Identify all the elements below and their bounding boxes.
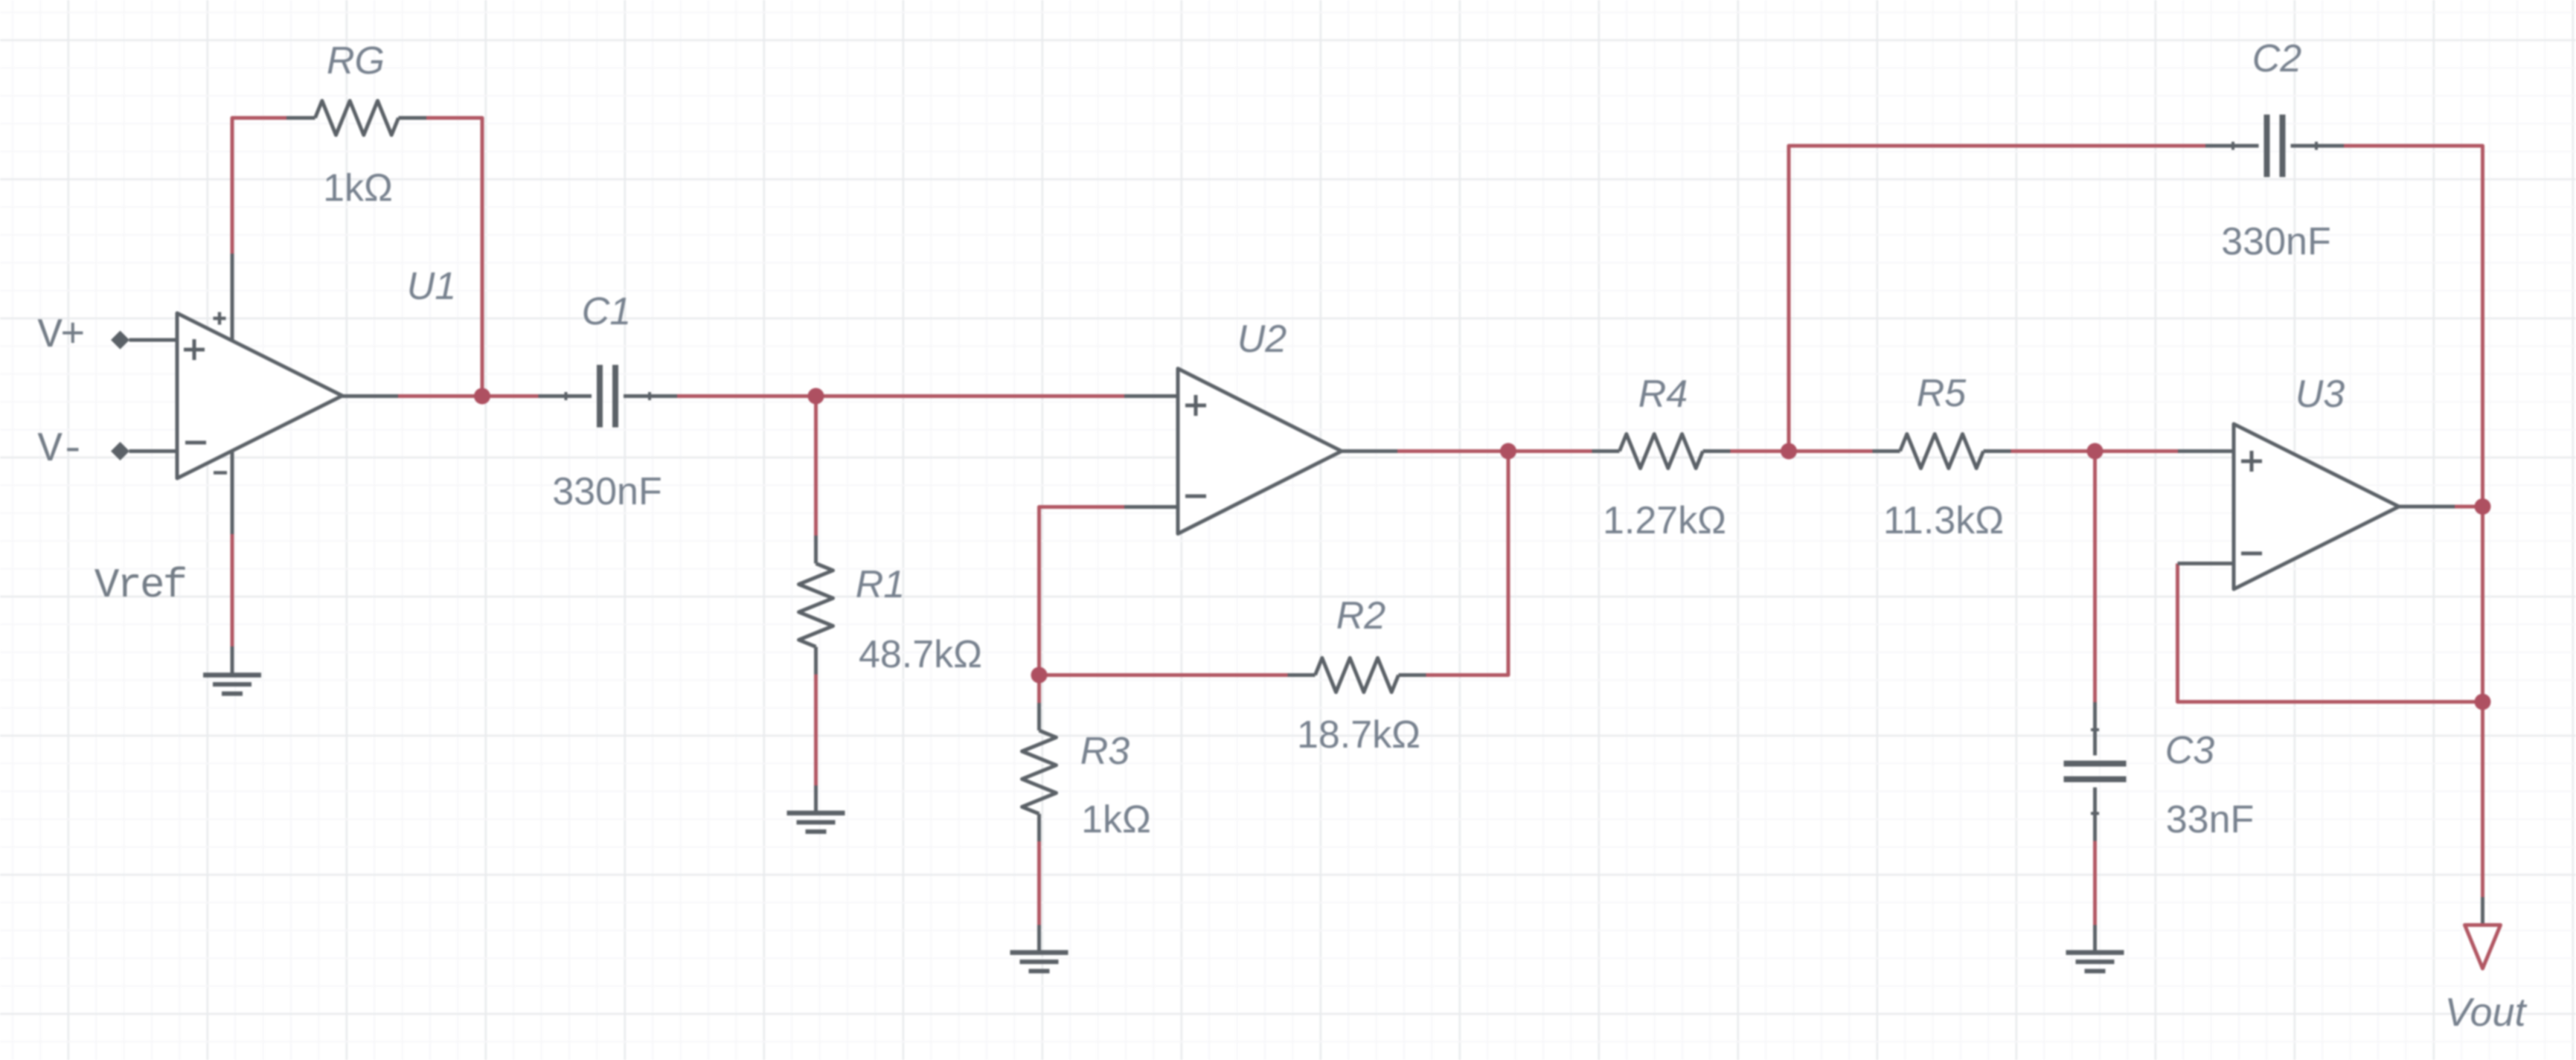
resistor RG	[286, 101, 426, 135]
wire: node C down to R3	[1037, 675, 1041, 704]
wire: C1 to node B	[677, 394, 816, 398]
wire: R1 to ground lead	[814, 675, 818, 786]
wire: U3 - input feedback to Vout node	[2178, 564, 2483, 702]
svg-text:1.27kΩ: 1.27kΩ	[1603, 499, 1726, 542]
wire: C2 to Vout trunk top	[2344, 146, 2483, 507]
node A: U1 output junction	[474, 388, 490, 405]
svg-text:330nF: 330nF	[552, 470, 661, 513]
wire: R4 to node E	[1731, 449, 1790, 453]
ground (C3)	[2066, 925, 2124, 971]
svg-text:Vref: Vref	[94, 562, 186, 609]
resistor R5	[1873, 434, 2011, 469]
op-amp U3	[2178, 424, 2455, 589]
svg-text:RG: RG	[327, 39, 385, 83]
op-amp U1	[129, 254, 399, 534]
wire: feedback node down to Vout flag	[2481, 702, 2484, 898]
wire: node E to R5	[1789, 449, 1873, 453]
svg-text:C1: C1	[582, 290, 631, 333]
terminal V-	[111, 442, 129, 460]
svg-text:U2: U2	[1237, 318, 1287, 361]
svg-text:1kΩ: 1kΩ	[1081, 798, 1151, 841]
wire: U3 output to trunk	[2455, 505, 2483, 509]
resistor R1	[799, 536, 833, 675]
op-amp U2	[1124, 369, 1397, 534]
wire: C3 to ground lead	[2093, 841, 2097, 925]
svg-text:Vout: Vout	[2444, 990, 2527, 1035]
wire: trunk output node to feedback node	[2481, 507, 2484, 702]
node H: feedback/Vout junction	[2475, 694, 2491, 710]
node D: U2 output junction	[1500, 443, 1516, 460]
svg-text:U3: U3	[2295, 373, 2345, 416]
wire: R5 to node F	[2011, 449, 2095, 453]
node G: U3 output junction	[2475, 498, 2491, 515]
svg-text:R4: R4	[1638, 373, 1688, 416]
node E: R4/C2/R5 junction	[1781, 443, 1797, 460]
wire: node E up and right to C2	[1789, 146, 2205, 452]
svg-text:V+: V+	[37, 312, 83, 359]
wire: U2 - input to node C	[1039, 507, 1125, 675]
svg-text:1kΩ: 1kΩ	[323, 167, 393, 210]
svg-text:11.3kΩ: 11.3kΩ	[1883, 499, 2004, 542]
svg-text:V-: V-	[37, 425, 83, 473]
node C: R2/R3 junction	[1031, 667, 1048, 684]
svg-text:U1: U1	[407, 265, 456, 308]
svg-text:330nF: 330nF	[2221, 220, 2330, 263]
wire: R3 to ground lead	[1037, 841, 1041, 925]
wire: node B to U2 + input	[816, 394, 1125, 398]
svg-text:R3: R3	[1080, 730, 1130, 773]
wire: node B down to R1	[814, 396, 818, 536]
wire: node D to R4	[1508, 449, 1592, 453]
resistor R3	[1022, 703, 1057, 841]
resistor R2	[1288, 658, 1426, 693]
capacitor C1	[539, 365, 678, 428]
wire: U1 bottom pin to Vref ground	[231, 534, 234, 646]
wire: U2 output to node D	[1397, 449, 1508, 453]
node B: C1/R1/U2 junction	[808, 388, 824, 405]
wire: node A to C1	[482, 394, 539, 398]
capacitor C2	[2205, 115, 2344, 177]
wire: node F down to C3	[2093, 452, 2097, 703]
svg-text:R2: R2	[1336, 594, 1386, 637]
capacitor C3	[2064, 702, 2127, 841]
ground (R3)	[1010, 925, 1068, 971]
wire: U1 output to node A	[398, 394, 482, 398]
svg-text:48.7kΩ: 48.7kΩ	[859, 633, 982, 676]
wire: node C to R2	[1039, 673, 1288, 677]
terminal V+	[111, 331, 129, 350]
wire: U1 top pin to RG left	[232, 118, 286, 254]
svg-text:C3: C3	[2165, 729, 2215, 772]
wire: node F to U3 + input	[2095, 449, 2179, 453]
node F: R5/C3/U3 junction	[2087, 443, 2104, 460]
resistor R4	[1592, 434, 1731, 469]
wire: RG right to U1 output node	[426, 118, 482, 396]
wire: R2 to U2 output node	[1426, 452, 1509, 675]
svg-text:R5: R5	[1917, 372, 1967, 415]
ground (Vref)	[203, 646, 261, 694]
svg-text:R1: R1	[856, 563, 905, 606]
svg-text:18.7kΩ: 18.7kΩ	[1297, 713, 1420, 757]
terminal Vout flag	[2465, 897, 2501, 969]
ground (R1)	[787, 786, 845, 832]
svg-text:C2: C2	[2252, 37, 2302, 80]
svg-text:33nF: 33nF	[2166, 798, 2255, 841]
